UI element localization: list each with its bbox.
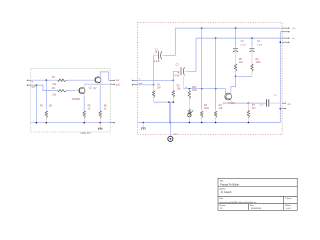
wire W1: top rail [175, 27, 282, 29]
junction P6 [280, 108, 282, 110]
pin lead [188, 99, 190, 109]
pin lead [99, 118, 101, 123]
wire: long vertical x201.7 [201, 28, 203, 109]
wire: C1 to top rail W1 [164, 28, 175, 55]
svg-text:R3: R3 [40, 105, 44, 108]
junction rail/R3 [46, 122, 48, 124]
wire: emitter row [231, 102, 249, 104]
wire: Q1 emitter drop [83, 97, 85, 112]
svg-text:100k: 100k [256, 62, 262, 64]
resistor R4 of VR chain [188, 91, 191, 99]
wire: Q2 collector route to out1 [100, 72, 110, 80]
pin: Q1 collector [83, 84, 85, 88]
junction W6/collector [235, 76, 237, 78]
red dashed main circuit box [138, 22, 282, 134]
svg-text:10k: 10k [219, 107, 224, 110]
junction rail/R4 [215, 122, 217, 124]
junction emitter/R7/C5 [248, 102, 250, 104]
wire W5: to Q3 base [184, 89, 226, 95]
wire: R1 to Q2 base [67, 79, 92, 81]
svg-text:VR1: VR1 [192, 86, 197, 89]
capacitor C4 [249, 48, 254, 50]
junction B/C1/R1 [153, 84, 155, 86]
wire: R2 to Q1 base [67, 90, 76, 92]
svg-text:1k: 1k [104, 108, 107, 111]
svg-text:gnd: gnd [116, 84, 121, 86]
wire: drop to rail [169, 102, 171, 122]
svg-text:100k: 100k [204, 108, 210, 110]
junction W2/C4 chain [251, 37, 253, 39]
capacitor C2 [180, 67, 182, 75]
wire W6 [236, 75, 253, 77]
sheet pin IN (left, green box) [28, 79, 31, 81]
pin lead [201, 118, 203, 123]
sheet pin OUT1 (right, green box) [110, 79, 114, 81]
sheet pin P5 (out) [282, 102, 285, 104]
junction W5/x201 vertical [201, 88, 203, 90]
wire: to C5 [248, 102, 266, 104]
junction W5/x215 vertical [215, 88, 217, 90]
wire: C2 left to junction A [173, 71, 178, 80]
svg-text:R3: R3 [204, 104, 208, 107]
wire: vertical x215.6 [215, 38, 217, 109]
pin lead [235, 46, 237, 49]
pin lead [251, 71, 253, 76]
line [265, 99, 267, 106]
svg-text:100k: 100k [192, 90, 198, 92]
svg-text:C5: C5 [274, 95, 277, 97]
pin: C5 right to P5 [269, 102, 282, 104]
svg-text:Title:: Title: [220, 180, 225, 183]
svg-text:File:: File: [220, 198, 224, 200]
pin lead [83, 118, 85, 123]
pin: Q3 base [225, 94, 227, 96]
connector circle (below border) [168, 136, 173, 141]
junction W2/x215 vertical [215, 37, 217, 39]
line [268, 99, 270, 106]
wire: to Q3 collector [231, 76, 236, 91]
svg-text:/home/rjoseph/gEDA/sch/parasit: /home/rjoseph/gEDA/sch/parasit/fx-buffer… [220, 201, 257, 204]
pin: Q3 collector [230, 91, 232, 94]
svg-text:out: out [292, 37, 295, 40]
svg-text:1 sheet: 1 sheet [285, 197, 292, 200]
svg-text:gnd: gnd [32, 87, 37, 89]
sheet pin gnd (left, red box) [133, 84, 138, 86]
sheet pin OUT2 (right, green box) [110, 83, 114, 85]
trimpot VR1 [188, 109, 191, 115]
svg-text:47uF: 47uF [174, 76, 180, 78]
svg-text:Author:: Author: [220, 188, 227, 191]
junction rail/R7 [248, 122, 250, 124]
pin: C2 drop to W5 [183, 76, 185, 89]
pin lead [215, 118, 217, 123]
svg-text:Version: Version [219, 204, 225, 207]
junction W1/x201 vertical [201, 27, 203, 29]
ground (red box) [142, 123, 144, 128]
pin: Q2 base [92, 79, 96, 81]
pin: R1 top [153, 85, 155, 91]
wire: C1 left drop [153, 55, 155, 85]
junction wire2/ground drop [36, 84, 38, 86]
resistor R9 [251, 64, 254, 71]
pin: Q1 base [75, 90, 79, 92]
junction W1/C3 chain [235, 27, 237, 29]
pin lead [247, 118, 249, 123]
green dashed sub-circuit box [31, 68, 111, 132]
sheet pin rail (right) [110, 122, 114, 124]
wire: input row to R1h [31, 79, 58, 81]
svg-text:10k: 10k [177, 88, 182, 91]
resistor R5 (vertical, green box) [83, 111, 86, 118]
wire: drop x46.3 [45, 80, 47, 109]
svg-text:1.1: 1.1 [220, 208, 224, 210]
pin: VR chain top [188, 89, 190, 91]
pin lead [153, 98, 155, 103]
ground (green box) [99, 123, 101, 128]
capacitor C1 [157, 51, 159, 59]
resistor R4 (red box bottom) [214, 111, 217, 118]
sheet pin P3 [282, 37, 289, 39]
svg-text:Q2: Q2 [93, 87, 97, 90]
pin: C2 left [178, 70, 181, 72]
resistor R2 (red box) [172, 91, 175, 98]
resistor R2 (horizontal, green box) [58, 89, 67, 92]
junction rail/VR1 [189, 122, 191, 124]
svg-text:10k: 10k [52, 93, 57, 96]
svg-text:R9: R9 [256, 59, 260, 61]
wire: Q1 collector to out2 [84, 83, 110, 85]
pin lead [172, 97, 174, 102]
svg-text:R7: R7 [252, 104, 256, 107]
junction rail/output drop [169, 122, 171, 124]
sheet pin GND (left, green box) [28, 84, 31, 86]
svg-text:buffer.sch: buffer.sch [81, 132, 92, 135]
sheet pin P6 [282, 108, 285, 110]
wire: chain2 drop [251, 38, 253, 46]
wire B: input 2 [138, 84, 154, 86]
wire: second input row step [31, 85, 58, 91]
pin lead [188, 117, 190, 123]
resistor R1 (red box) [152, 91, 155, 98]
resistor R8 [234, 64, 237, 71]
transistor Q2 [95, 77, 101, 83]
svg-text:Date:: Date: [250, 204, 255, 207]
junction P4 [280, 41, 282, 43]
svg-text:0.1u: 0.1u [260, 105, 265, 107]
resistor R1 (horizontal, green box) [58, 79, 67, 82]
junction A/C2/R2 [173, 80, 175, 82]
pin: Q3 emitter [230, 99, 232, 103]
svg-text:Q1: Q1 [89, 86, 93, 89]
svg-text:4k7: 4k7 [252, 108, 256, 110]
svg-text:1k: 1k [88, 108, 91, 111]
pin: Q2 emitter [99, 83, 101, 86]
junction subwire/R2 [173, 101, 175, 103]
pin lead [45, 109, 47, 111]
svg-text:C3: C3 [241, 41, 245, 43]
svg-text:1 of 1: 1 of 1 [286, 208, 292, 210]
transistor Q1 [79, 88, 85, 94]
svg-text:C1: C1 [155, 49, 159, 52]
svg-text:R8: R8 [239, 59, 243, 61]
svg-text:R2: R2 [52, 87, 56, 90]
svg-text:0.1uF: 0.1uF [257, 44, 263, 46]
svg-text:jack: jack [173, 133, 179, 135]
wire: drop x36.4 to rail [35, 85, 37, 123]
svg-text:10k: 10k [52, 83, 57, 86]
svg-text:26/10/2014: 26/10/2014 [251, 208, 262, 210]
junction rail/x36 drop [36, 122, 38, 124]
resistor R7 [247, 110, 250, 118]
pin lead [235, 71, 237, 76]
junction rail/ground [143, 122, 145, 124]
pin: C2 right [185, 70, 188, 72]
junction wire1/R3 drop [46, 79, 48, 81]
svg-text:2N5088: 2N5088 [72, 99, 81, 101]
resistor R6 (vertical, green box) [99, 111, 102, 118]
junction rail/R3 [201, 122, 203, 124]
pin lead [251, 46, 253, 49]
svg-text:in: in [32, 82, 35, 84]
pin lead [215, 109, 217, 111]
svg-text:2.2uF: 2.2uF [154, 61, 160, 63]
pin lead [235, 52, 237, 64]
wire: R1-R2 bottom [154, 101, 174, 103]
sheet pin P1 (+9V) [282, 27, 289, 29]
svg-text:0.1uF: 0.1uF [241, 44, 247, 46]
wire: C2 right up to W2 [187, 38, 196, 71]
junction W5/VR1 chain [189, 88, 191, 90]
junction rail/R5 [83, 122, 85, 124]
svg-text:Parasit Fx Buffer: Parasit Fx Buffer [221, 183, 240, 186]
pin: Q1 emitter [83, 94, 85, 97]
sheet pin in (left, red box) [133, 79, 138, 81]
wire: right-side vertical x280.3 [280, 32, 282, 123]
svg-text:+9v: +9v [292, 28, 296, 30]
wire W2 [196, 37, 282, 39]
svg-text:Sheets: Sheets [285, 204, 291, 207]
pin: R7 top [247, 103, 249, 110]
svg-text:R1: R1 [52, 76, 56, 79]
svg-text:out: out [288, 103, 292, 106]
svg-text:R. Joseph: R. Joseph [221, 192, 232, 194]
svg-text:10k: 10k [239, 62, 244, 64]
pin lead [201, 109, 203, 111]
pin lead [45, 118, 47, 123]
sheet pin P2 [282, 31, 289, 33]
transistor Q3 [225, 93, 232, 100]
junction rail/R6/ground [99, 122, 101, 124]
resistor R3 (vertical, green box) [45, 111, 48, 118]
wire: green box ground rail [31, 122, 110, 124]
pin: C1 left [154, 54, 158, 56]
wire A: input [138, 79, 174, 81]
svg-text:C4: C4 [257, 41, 261, 43]
pin: R2 top [172, 80, 174, 90]
wire: red box ground rail [138, 122, 280, 124]
pin lead [251, 52, 253, 64]
capacitor C3 [233, 48, 238, 50]
wire: P6 stub link [280, 108, 282, 110]
title block [218, 178, 297, 210]
sheet pin P4 [282, 41, 289, 43]
resistor R3 (red box bottom) [200, 111, 203, 118]
wire: drop to output circle [170, 102, 172, 136]
pin: C1 right [162, 54, 165, 56]
junction subwire/drop [168, 101, 170, 103]
svg-text:1M: 1M [157, 87, 160, 90]
svg-text:out: out [116, 79, 120, 82]
svg-text:C2: C2 [176, 64, 180, 67]
wire: Q2 emitter drop [99, 86, 101, 111]
svg-text:1M: 1M [49, 105, 52, 108]
wire: chain1 drop [235, 28, 237, 46]
